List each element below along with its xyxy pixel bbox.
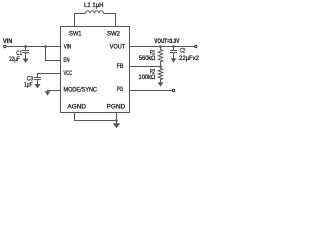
svg-text:VIN: VIN xyxy=(64,44,71,51)
svg-text:100kΩ: 100kΩ xyxy=(139,74,156,81)
svg-text:VOUT: VOUT xyxy=(110,44,126,51)
svg-text:VCC: VCC xyxy=(64,70,73,77)
svg-text:22µFx2: 22µFx2 xyxy=(179,55,200,62)
svg-text:FB: FB xyxy=(117,63,124,70)
svg-text:VIN: VIN xyxy=(3,38,12,45)
svg-text:VOUT=3.3V: VOUT=3.3V xyxy=(154,38,180,45)
svg-text:PG: PG xyxy=(117,86,123,93)
svg-text:AGND: AGND xyxy=(67,104,86,111)
svg-text:560kΩ: 560kΩ xyxy=(139,55,156,62)
svg-text:L1 1µH: L1 1µH xyxy=(84,2,104,9)
svg-text:SW1: SW1 xyxy=(69,31,82,38)
svg-text:PGND: PGND xyxy=(107,104,126,111)
svg-text:EN: EN xyxy=(64,57,70,64)
svg-text:1µF: 1µF xyxy=(24,81,33,88)
svg-text:C2: C2 xyxy=(180,47,186,54)
svg-text:SW2: SW2 xyxy=(107,31,121,38)
svg-text:22µF: 22µF xyxy=(9,56,20,63)
svg-text:MODE/SYNC: MODE/SYNC xyxy=(64,86,98,93)
